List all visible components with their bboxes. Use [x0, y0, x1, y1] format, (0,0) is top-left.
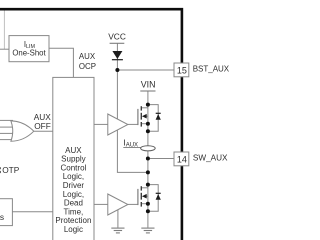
- svg-text:Dead: Dead: [64, 199, 83, 208]
- wire VIN stem to upper FET drain: [147, 91, 149, 146]
- wire upper FET source tap: [141, 123, 148, 125]
- wire VCC node to pin 15: [117, 69, 174, 71]
- wire upper gate lead: [128, 123, 138, 125]
- current source I_AUX (ellipse): [141, 146, 156, 151]
- node source: [146, 202, 150, 206]
- box I_LIM One-Shot: [9, 36, 49, 62]
- junction node VCC/BST: [115, 68, 119, 72]
- wire SW node down to lower FET and ground: [147, 151, 149, 228]
- driver buffer U1 (high side): [108, 114, 128, 135]
- pin 15 box: [174, 63, 189, 77]
- node driver return tap: [146, 170, 150, 174]
- driver buffer U2 (low side): [108, 194, 128, 215]
- svg-text:Supply: Supply: [61, 155, 85, 164]
- wire upper FET body diode branch: [148, 105, 158, 132]
- svg-text:VCC: VCC: [108, 32, 126, 42]
- svg-text:One-Shot: One-Shot: [12, 49, 46, 58]
- ground under low-side driver: [111, 228, 124, 233]
- node body return: [146, 209, 150, 213]
- svg-text:Driver: Driver: [63, 181, 85, 190]
- svg-text:OTP: OTP: [2, 165, 20, 175]
- wire lower buffer ground stem: [117, 210, 119, 228]
- wire OR gate input 1: [0, 119, 13, 121]
- pin 14 box: [174, 152, 189, 166]
- svg-text:SW_AUX: SW_AUX: [193, 153, 228, 162]
- svg-text:OCP: OCP: [79, 62, 96, 71]
- svg-text:Control: Control: [61, 163, 87, 172]
- node SW tap: [146, 157, 150, 161]
- svg-text:AUX: AUX: [65, 146, 82, 155]
- wire from top border to I_LIM One-Shot input: [3, 11, 5, 50]
- wire VCC stem: [116, 43, 118, 70]
- wire lower gate lead: [128, 203, 138, 205]
- diode from VCC (bootstrap): [112, 51, 123, 60]
- body diode cathode bar: [156, 192, 161, 194]
- node source: [146, 122, 150, 126]
- channel bar segments: [140, 186, 142, 190]
- wire OR gate input 4: [0, 139, 13, 141]
- gate bar: [137, 189, 139, 205]
- wire OR gate input 2: [0, 126, 15, 128]
- I_AUX leader line: [123, 147, 140, 149]
- svg-text:BST_AUX: BST_AUX: [193, 64, 230, 73]
- VCC supply bar: [110, 42, 125, 44]
- svg-text:Protection: Protection: [55, 216, 91, 225]
- wire I_LIM One-Shot output to AUX OCP into AUX Supply box: [49, 48, 73, 77]
- svg-text:AUX: AUX: [79, 52, 96, 61]
- wire upper FET body tap: [146, 115, 148, 117]
- wire lower FET drain tap: [141, 187, 148, 189]
- node body return: [146, 129, 150, 133]
- VIN supply bar: [140, 90, 155, 92]
- body diode cathode bar: [156, 112, 161, 114]
- node drain: [146, 103, 150, 107]
- svg-text:OFF: OFF: [34, 121, 51, 131]
- svg-text:Time,: Time,: [64, 207, 84, 216]
- box AUX Supply Control Logic: [53, 77, 94, 240]
- svg-text:s: s: [0, 212, 4, 222]
- gate bar: [137, 109, 139, 125]
- wire lower FET source tap: [141, 203, 148, 205]
- body diode: [156, 114, 161, 120]
- wire OR gate output to AUX Supply box (AUX OFF): [34, 130, 53, 132]
- label AUX OFF: [34, 112, 52, 131]
- svg-text:Logic: Logic: [64, 225, 83, 234]
- clipped letter fragment left of OTP: [0, 167, 2, 169]
- wire into I_LIM One-Shot: [0, 48, 9, 50]
- ground under low-side FET source: [141, 228, 154, 233]
- svg-text:Logic,: Logic,: [63, 172, 84, 181]
- wire lower FET body tap: [146, 195, 148, 197]
- OR gate (AUX OFF): [11, 121, 34, 141]
- transistor Q1 (high-side NMOS): [138, 103, 161, 134]
- body diode: [156, 194, 161, 200]
- chip outline border (thick): [0, 9, 182, 240]
- svg-text:14: 14: [177, 154, 187, 164]
- node drain: [146, 183, 150, 187]
- body arrow: [142, 194, 147, 199]
- wire AUX box to lower driver input: [94, 203, 108, 205]
- label AUX OCP: [79, 52, 96, 71]
- box at left edge (cut): [0, 199, 12, 226]
- body arrow: [142, 114, 147, 119]
- wire BST rail down behind upper driver to SW node: [117, 70, 147, 172]
- wire from left small box to AUX Supply box: [12, 211, 52, 213]
- svg-text:VIN: VIN: [141, 80, 156, 90]
- channel bar segments: [140, 106, 142, 110]
- svg-text:Logic,: Logic,: [63, 190, 84, 199]
- wire AUX box to upper driver input: [94, 123, 108, 125]
- svg-text:15: 15: [177, 65, 187, 75]
- wire OR gate input 3: [0, 132, 15, 134]
- wire lower FET body diode branch: [148, 185, 158, 212]
- wire upper FET drain tap: [141, 107, 148, 109]
- transistor Q2 (low-side NMOS): [138, 183, 161, 214]
- wire SW node to pin 14: [148, 158, 174, 160]
